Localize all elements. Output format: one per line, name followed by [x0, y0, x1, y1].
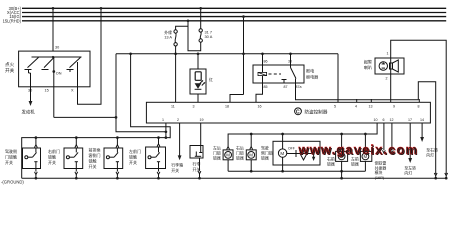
svg-text:OFF: OFF — [288, 147, 295, 151]
node ON — [52, 70, 55, 73]
svg-text:开关: 开关 — [5, 67, 15, 74]
door switch SW2 right front — [64, 148, 83, 169]
label SW3 — [89, 146, 101, 169]
node rail box1 — [35, 136, 38, 139]
wire ignition pin30 to starter — [30, 73, 32, 87]
svg-text:开关: 开关 — [5, 159, 13, 165]
svg-text:锁触: 锁触 — [48, 153, 56, 159]
node junction railA led — [197, 52, 200, 55]
wire M1 bottom — [227, 160, 229, 171]
svg-text:87: 87 — [284, 85, 288, 89]
svg-text:前排乘: 前排乘 — [89, 146, 101, 152]
svg-text:M: M — [249, 153, 253, 158]
horn internal wire — [390, 58, 392, 74]
node rail relay86 — [261, 52, 264, 55]
wire SW2 bottom — [75, 169, 77, 172]
control top pin stubs — [357, 99, 420, 102]
node bus4 — [187, 19, 190, 22]
wire relay pin30 up — [290, 54, 292, 65]
wire ignition feed 30 — [52, 8, 54, 51]
svg-text:4: 4 — [355, 105, 357, 109]
svg-text:开关: 开关 — [171, 167, 179, 173]
svg-text:M: M — [226, 153, 230, 158]
svg-text:30: 30 — [288, 60, 292, 64]
svg-text:8: 8 — [418, 105, 420, 109]
label MA — [327, 157, 335, 167]
svg-text:喇叭: 喇叭 — [364, 64, 372, 70]
relay coil — [258, 65, 267, 83]
horn pin labels — [386, 52, 389, 81]
wire MB bottom — [364, 161, 366, 171]
svg-text:开关: 开关 — [48, 159, 56, 165]
label right turn light — [426, 148, 438, 158]
svg-text:30: 30 — [55, 46, 59, 50]
power bus X(ACC) — [22, 12, 446, 14]
svg-text:左前门: 左前门 — [129, 148, 141, 154]
svg-text:16: 16 — [258, 105, 262, 109]
module link line — [287, 153, 314, 155]
node bus1 pinX — [100, 7, 103, 10]
wire MA bottom to ground — [341, 161, 343, 178]
wire control pin2 arrow to trunk release — [179, 123, 181, 156]
LED resistor — [195, 72, 201, 81]
power bus 30(B+) — [22, 7, 446, 9]
wire bus3 down to pin18 jog — [243, 17, 245, 95]
wire MA top — [341, 134, 343, 148]
svg-text:3: 3 — [193, 105, 195, 109]
horn coil circle — [379, 62, 387, 70]
node rail pin1 — [165, 136, 168, 139]
label M2 — [236, 145, 244, 160]
control unit box — [146, 102, 430, 123]
driver lock actuator module box — [273, 141, 320, 165]
power bus 15(IG) — [22, 16, 446, 18]
control bottom pin numbers — [162, 118, 424, 122]
wire SW2 top — [75, 138, 77, 145]
wire control pin14 arrow — [420, 123, 424, 142]
ignition contact blade 2 (ON) — [42, 57, 55, 72]
wire control pin12 down — [391, 123, 393, 150]
label M3 — [261, 145, 273, 160]
label control unit — [295, 108, 328, 116]
svg-text:C: C — [296, 109, 300, 115]
wire ignition pinX loop to bus1 — [77, 73, 79, 87]
node ground 87 loop — [434, 177, 437, 180]
svg-text:9: 9 — [393, 105, 395, 109]
node ignition rail — [52, 56, 54, 58]
actuator MB left front — [360, 151, 371, 161]
svg-text:报警: 报警 — [364, 59, 372, 65]
svg-text:12: 12 — [390, 118, 394, 122]
ignition switch box — [19, 51, 90, 87]
wire M2 top — [250, 134, 252, 147]
wire horn pin1 ground loop — [391, 40, 447, 174]
node ground SW1 — [35, 177, 38, 180]
svg-text:85: 85 — [264, 85, 268, 89]
module switch tick — [295, 150, 297, 157]
node bus3 — [242, 15, 245, 18]
wire M3 top — [282, 134, 284, 149]
wire control pin1 to switch rail — [165, 123, 167, 138]
wire SW1 bottom — [35, 169, 37, 172]
wire trunk bottom — [199, 158, 201, 171]
svg-text:17: 17 — [408, 118, 412, 122]
relay pin labels top — [264, 60, 293, 64]
svg-text:(16P): (16P) — [375, 175, 385, 180]
label relay — [306, 68, 318, 80]
svg-text:30 A: 30 A — [205, 34, 213, 39]
horn box — [375, 58, 404, 74]
svg-text:向灯: 向灯 — [426, 152, 434, 157]
wire ignition pin15 down — [53, 72, 55, 87]
svg-text:15L(RHD): 15L(RHD) — [3, 18, 22, 23]
switch rail — [22, 138, 171, 179]
door switch SW4 left front — [146, 147, 166, 169]
ignition pin numbers — [28, 89, 74, 93]
wire fuse1 top to bus4 step — [176, 21, 188, 30]
label fuse F1 — [164, 30, 172, 40]
actuator M1 left rear — [223, 150, 233, 160]
svg-text:2: 2 — [386, 77, 388, 81]
label SW4 — [129, 148, 141, 165]
svg-text:行李箱: 行李箱 — [171, 162, 183, 168]
svg-text:继电器: 继电器 — [306, 74, 318, 80]
svg-text:13: 13 — [369, 105, 373, 109]
svg-text:开关: 开关 — [89, 163, 97, 169]
svg-text:锁触: 锁触 — [129, 153, 137, 159]
svg-text:www.gaveix.com: www.gaveix.com — [298, 142, 419, 157]
svg-text:13 A: 13 A — [164, 35, 172, 40]
wire M1 top — [227, 147, 230, 150]
relay contact — [282, 65, 297, 83]
svg-text:15: 15 — [45, 89, 49, 93]
label sensor module — [375, 161, 387, 180]
wire horn pin2 to control pin9 — [390, 74, 392, 102]
node rail bus3 cross — [242, 52, 245, 55]
wire relay pin86 up — [262, 54, 264, 65]
wire control pin17 arrow — [408, 123, 412, 163]
node ground MA — [340, 177, 343, 180]
svg-text:锁器: 锁器 — [327, 162, 335, 167]
wire fuse1 bottom to control pin11 — [175, 46, 177, 102]
wire MB top — [364, 134, 366, 148]
svg-text:右前门: 右前门 — [48, 148, 60, 154]
label horn — [364, 59, 372, 71]
wire pin15 jog right — [54, 54, 116, 118]
svg-text:客侧门: 客侧门 — [89, 152, 101, 158]
wire SW4 bottom — [158, 169, 160, 172]
relay dashed link — [269, 73, 282, 75]
svg-text:10: 10 — [374, 118, 378, 122]
svg-text:断电: 断电 — [306, 68, 314, 74]
relay pin labels bottom — [264, 85, 302, 89]
node L2 m2 — [250, 133, 253, 136]
svg-text:18: 18 — [225, 105, 229, 109]
node bus1 fuse2 — [199, 7, 202, 10]
label fuse F2 — [205, 29, 213, 39]
wire fuse2 top to bus1 — [200, 8, 202, 28]
node rail box3 — [116, 136, 119, 139]
ground chevron 87 loop — [434, 173, 437, 176]
relay box — [253, 65, 304, 83]
wire SW3 top — [116, 138, 118, 145]
door switch SW1 driver — [23, 148, 41, 169]
svg-text:-(GROUND): -(GROUND) — [1, 180, 24, 185]
wire fuse2 bottom step — [188, 26, 201, 51]
label SW2 — [48, 148, 60, 165]
wire control pin19 to trunk switch — [200, 123, 202, 153]
svg-text:红: 红 — [209, 77, 213, 82]
svg-text:锁器: 锁器 — [351, 162, 359, 167]
svg-text:发动机: 发动机 — [22, 109, 36, 116]
bus labels — [3, 6, 22, 24]
svg-text:锁触: 锁触 — [89, 157, 97, 163]
svg-text:门锁触: 门锁触 — [5, 153, 17, 159]
node ground trunk — [198, 177, 201, 180]
label left turn light — [404, 166, 416, 176]
module V contact — [300, 154, 307, 161]
wire relay pin87 to ground loop — [296, 79, 436, 174]
ignition contact blade 1 — [25, 57, 39, 73]
node Mbus MB — [364, 133, 367, 136]
svg-text:87a: 87a — [296, 85, 302, 89]
svg-text:14: 14 — [420, 118, 424, 122]
actuator bus — [228, 170, 365, 172]
fuse F2 30A — [199, 29, 202, 43]
label trunk switch — [193, 161, 201, 173]
wire led bottom to pin3 — [197, 94, 199, 102]
power bus 15L(RHD) — [22, 20, 446, 22]
wire railA to L2 — [131, 54, 171, 139]
wire rail to control pin5 — [337, 54, 339, 103]
label ignition switch — [5, 62, 15, 74]
node ground SW3 — [116, 177, 119, 180]
node L2 bigbox — [281, 133, 284, 136]
wire M3 bottom — [282, 157, 284, 171]
node bus1-ignition — [52, 7, 55, 10]
M bus from pin10 — [228, 123, 377, 147]
node actuator bus m2 — [250, 170, 253, 173]
svg-text:11: 11 — [171, 105, 175, 109]
wire M2 bottom — [250, 160, 252, 171]
control top pin numbers — [171, 105, 420, 109]
ground chevron horn loop — [445, 173, 448, 176]
wire control pin6 down — [383, 123, 385, 150]
rail A horizontal node — [116, 53, 338, 55]
ignition contact blade 3 — [67, 57, 81, 72]
actuator M3 driver — [278, 149, 286, 157]
svg-text:5: 5 — [334, 105, 336, 109]
svg-text:防盗控制器: 防盗控制器 — [305, 109, 328, 116]
trunk switch box — [190, 146, 203, 159]
svg-text:开关: 开关 — [129, 159, 137, 165]
node L2 pin1 junction — [165, 130, 168, 133]
node junction railA fuse1 — [174, 52, 177, 55]
wire SW1 top — [35, 138, 37, 145]
label trunk release switch — [171, 162, 183, 174]
svg-text:驾驶侧: 驾驶侧 — [5, 148, 17, 154]
node rail box2 — [75, 136, 78, 139]
svg-text:86: 86 — [264, 60, 268, 64]
wire led top — [197, 54, 199, 69]
wire relay pin85 to control — [256, 83, 263, 102]
svg-text:ON: ON — [56, 72, 62, 76]
svg-text:19: 19 — [200, 118, 204, 122]
wire SW3 bottom — [116, 169, 118, 172]
actuator MA right front — [336, 151, 348, 161]
node ground SW2 — [75, 177, 78, 180]
LED diode — [195, 80, 205, 89]
node actuator bus m3 — [281, 170, 284, 173]
horn speaker — [390, 60, 399, 72]
node rail box4 — [157, 136, 160, 139]
security LED box — [190, 69, 206, 94]
ground bus — [22, 177, 447, 179]
L2 actuator line — [116, 117, 166, 131]
node actuator bus mA — [340, 170, 343, 173]
ignition internal rail — [32, 56, 82, 58]
label SW1 — [5, 148, 17, 165]
svg-text:M: M — [280, 151, 284, 156]
svg-text:2: 2 — [177, 118, 179, 122]
node railA x130.6 — [129, 52, 132, 55]
svg-text:锁器: 锁器 — [261, 155, 269, 160]
actuator M2 right rear — [246, 150, 256, 160]
node ground SW4 — [157, 177, 160, 180]
svg-text:X: X — [71, 89, 74, 93]
node ground horn loop — [445, 177, 448, 180]
svg-text:向灯: 向灯 — [404, 170, 412, 175]
svg-text:6: 6 — [383, 118, 385, 122]
svg-text:锁器: 锁器 — [213, 155, 221, 160]
label MB — [351, 157, 359, 167]
svg-text:1: 1 — [387, 52, 389, 56]
svg-text:锁器: 锁器 — [236, 155, 244, 160]
module arrow — [312, 149, 315, 161]
label M1 — [213, 145, 221, 160]
fuse F1 13A — [174, 30, 177, 46]
door switch SW3 front passenger — [104, 148, 123, 169]
arrow to engine — [29, 101, 33, 106]
node junction pin15 jog — [115, 116, 118, 119]
svg-text:1: 1 — [162, 118, 164, 122]
wire SW4 top — [158, 138, 160, 144]
node rail relay30 — [289, 52, 292, 55]
